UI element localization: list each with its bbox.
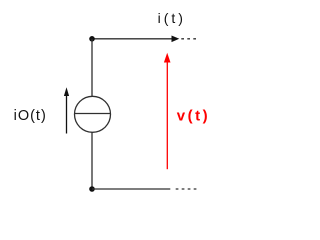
svg-text:iO(t): iO(t)	[14, 108, 47, 124]
iO(t) source current arrowhead	[64, 87, 69, 96]
wire top dashed continuation	[181, 38, 196, 40]
wire from source down to node B	[91, 132, 93, 189]
current source U1 (circle)	[75, 96, 111, 132]
svg-text:i(t): i(t)	[158, 10, 186, 26]
v(t) voltage arrow shaft (red)	[166, 59, 168, 169]
current direction arrowhead i(t)	[172, 36, 180, 43]
svg-text:v(t): v(t)	[177, 108, 210, 125]
current source bar	[75, 113, 111, 115]
wire from node A down to source	[91, 39, 93, 97]
wire bottom dashed continuation	[176, 188, 198, 190]
node A (top junction dot)	[89, 36, 95, 42]
node B (bottom junction dot)	[89, 186, 95, 192]
wire top horizontal	[92, 38, 173, 40]
v(t) voltage arrowhead (red)	[164, 53, 171, 63]
iO(t) source current arrow shaft	[66, 94, 68, 134]
wire bottom horizontal	[92, 188, 170, 190]
